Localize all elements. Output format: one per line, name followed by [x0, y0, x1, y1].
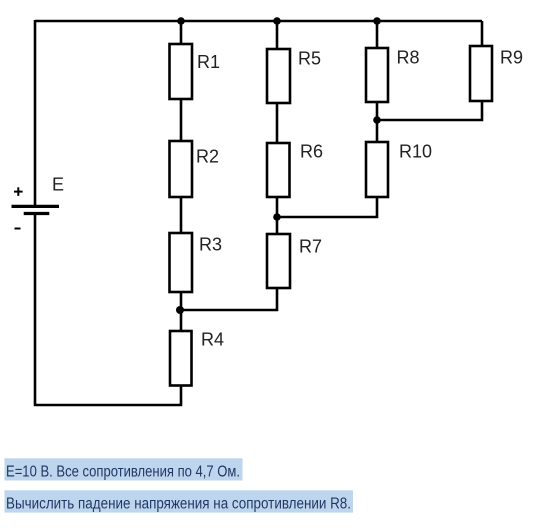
svg-text:R7: R7	[299, 236, 322, 256]
svg-text:R3: R3	[199, 234, 222, 254]
svg-text:R9: R9	[500, 48, 523, 68]
svg-text:R10: R10	[399, 141, 432, 161]
svg-text:R4: R4	[201, 330, 224, 350]
svg-text:R8: R8	[397, 47, 420, 67]
svg-text:R5: R5	[298, 48, 321, 68]
svg-text:E: E	[52, 175, 64, 195]
svg-text:R6: R6	[300, 141, 323, 161]
svg-text:Е=10 В. Все сопротивления по 4: Е=10 В. Все сопротивления по 4,7 Ом.	[6, 463, 240, 480]
svg-text:Вычислить падение напряжения н: Вычислить падение напряжения на сопротив…	[6, 496, 351, 513]
svg-text:R1: R1	[197, 52, 220, 72]
svg-text:R2: R2	[196, 146, 219, 166]
